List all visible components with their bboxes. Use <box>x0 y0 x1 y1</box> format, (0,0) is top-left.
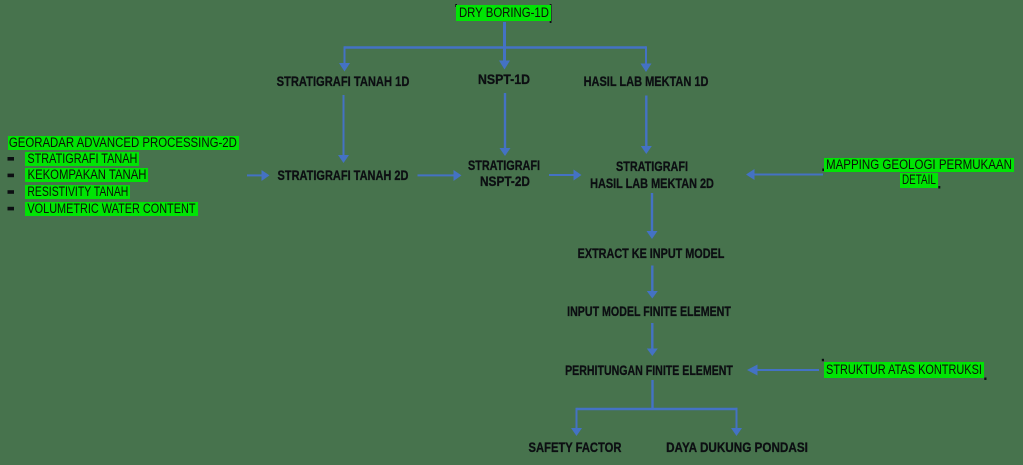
list dash 2 <box>8 174 15 178</box>
wire INPUT MODEL FINITE ELEMENT to PERHITUNGAN FINITE ELEMENT <box>651 323 653 349</box>
node list item RESISTIVITY TANAH <box>25 185 130 199</box>
arrowhead into STRATIGRAFI TANAH 2D <box>338 155 349 163</box>
node STRATIGRAFI HASIL LAB MEKTAN 2D line 1 <box>616 160 688 175</box>
node SAFETY FACTOR <box>528 441 621 456</box>
node MAPPING GEOLOGI PERMUKAAN block line 2 DETAIL <box>900 173 938 188</box>
node list item KEKOMPAKAN TANAH <box>25 168 148 182</box>
node list item STRATIGRAFI TANAH <box>25 152 139 166</box>
node STRATIGRAFI NSPT-2D line 1 <box>468 159 540 174</box>
arrowhead into STRATIGRAFI NSPT-2D from above <box>500 148 511 156</box>
wire drop to STRATIGRAFI TANAH 1D <box>344 46 346 63</box>
node DAYA DUKUNG PONDASI <box>666 441 808 456</box>
arrowhead into EXTRACT KE INPUT MODEL <box>647 231 658 239</box>
wire PERHITUNGAN FINITE ELEMENT down to branch bar <box>651 380 653 409</box>
arrowhead MAPPING arrow pointing left <box>746 169 755 180</box>
wire MAPPING GEOLOGI block to STRATIGRAFI HASIL LAB MEKTAN 2D <box>754 174 823 176</box>
arrowhead into STRATIGRAFI HASIL LAB MEKTAN 2D from above <box>641 146 652 154</box>
arrowhead GEORADAR arrow <box>262 170 270 181</box>
dark right edge of DRY BORING-1D box <box>550 4 552 23</box>
arrowhead into NSPT-1D <box>499 61 510 70</box>
wire branch drop to SAFETY FACTOR <box>576 408 578 428</box>
arrowhead into STRATIGRAFI HASIL LAB MEKTAN 2D from left <box>574 170 582 181</box>
list dash 1 <box>8 157 15 161</box>
arrowhead into HASIL LAB MEKTAN 1D <box>641 64 652 73</box>
node STRUKTUR ATAS KONTRUKSI <box>824 362 984 378</box>
arrowhead into STRATIGRAFI NSPT-2D from left <box>454 170 462 181</box>
node list item VOLUMETRIC WATER CONTENT <box>25 202 198 216</box>
list dash 3 <box>8 190 15 194</box>
wire STRATIGRAFI TANAH 2D to STRATIGRAFI NSPT-2D <box>418 174 454 176</box>
arrowhead STRUKTUR arrow pointing left <box>747 365 758 376</box>
node STRATIGRAFI TANAH 1D <box>276 75 409 90</box>
dark tick top-left of DRY BORING-1D box <box>455 4 457 7</box>
arrowhead into PERHITUNGAN FINITE ELEMENT from above <box>647 349 658 357</box>
wire stem from DRY BORING-1D down through distribution bar <box>503 22 506 61</box>
node MAPPING GEOLOGI PERMUKAAN block line 1 <box>824 158 1014 172</box>
speck left of MAPPING box <box>822 169 824 172</box>
wire HASIL LAB MEKTAN 1D to 2D <box>645 96 647 147</box>
wire STRUKTUR ATAS KONTRUKSI to PERHITUNGAN FINITE ELEMENT <box>757 369 819 371</box>
wire NSPT-1D to STRATIGRAFI NSPT-2D <box>504 93 506 148</box>
speck bottom-right of STRUKTUR box <box>984 378 986 381</box>
speck top-left of STRUKTUR box <box>822 359 824 362</box>
node STRATIGRAFI TANAH 2D <box>277 169 408 184</box>
list dash 4 <box>8 207 15 211</box>
wire branch horizontal bar <box>577 408 738 410</box>
wire STRATIGRAFI HASIL LAB MEKTAN 2D to EXTRACT KE INPUT MODEL <box>651 193 653 231</box>
wire horizontal distribution bar <box>345 46 647 48</box>
node NSPT-1D <box>478 73 530 88</box>
wire branch drop to DAYA DUKUNG PONDASI <box>736 408 738 428</box>
wire EXTRACT KE INPUT MODEL to INPUT MODEL FINITE ELEMENT <box>651 266 653 292</box>
node PERHITUNGAN FINITE ELEMENT <box>565 364 733 379</box>
arrowhead into DAYA DUKUNG PONDASI <box>731 428 742 436</box>
node STRATIGRAFI NSPT-2D line 2 <box>480 175 530 190</box>
node STRATIGRAFI HASIL LAB MEKTAN 2D line 2 <box>590 177 714 192</box>
speck after DETAIL box <box>938 186 940 189</box>
node EXTRACT KE INPUT MODEL <box>577 247 724 262</box>
node DRY BORING-1D <box>456 5 551 22</box>
wire GEORADAR block to STRATIGRAFI TANAH 2D <box>247 174 262 176</box>
wire STRATIGRAFI NSPT-2D to STRATIGRAFI HASIL LAB MEKTAN 2D <box>549 174 574 176</box>
node INPUT MODEL FINITE ELEMENT <box>567 305 731 320</box>
node GEORADAR ADVANCED PROCESSING-2D block <box>8 136 239 150</box>
arrowhead into STRATIGRAFI TANAH 1D <box>339 63 350 72</box>
wire STRATIGRAFI TANAH 1D to 2D <box>343 95 345 155</box>
wire drop to HASIL LAB MEKTAN 1D <box>645 46 647 64</box>
arrowhead into SAFETY FACTOR <box>571 428 582 436</box>
node HASIL LAB MEKTAN 1D <box>583 75 708 90</box>
arrowhead into INPUT MODEL FINITE ELEMENT <box>647 291 658 299</box>
